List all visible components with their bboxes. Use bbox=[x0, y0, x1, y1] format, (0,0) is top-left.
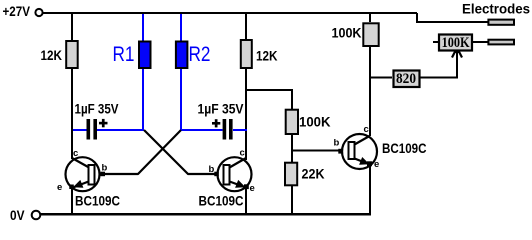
Q1 emitter junction dot bbox=[69, 185, 74, 190]
Q2 part label BC109C bbox=[199, 193, 244, 209]
svg-text:b: b bbox=[334, 138, 340, 149]
Q2 emitter arrow bbox=[235, 180, 245, 188]
resistor R2 bbox=[176, 42, 188, 69]
svg-text:b: b bbox=[209, 164, 215, 175]
Q2 collector stroke bbox=[230, 158, 247, 168]
Q1 pin label e bbox=[57, 182, 62, 193]
Q2 pin label c bbox=[240, 148, 245, 159]
svg-text:100K: 100K bbox=[332, 26, 362, 41]
polarity + of C2 bbox=[212, 119, 220, 127]
Q3 collector stroke bbox=[355, 136, 370, 145]
value label 12K left bbox=[41, 48, 63, 63]
svg-text:+27V: +27V bbox=[3, 4, 31, 19]
label Electrodes bbox=[462, 2, 530, 17]
Q1 emitter arrow bbox=[73, 180, 83, 188]
wire cross-couple node A to Q2 base bbox=[144, 130, 216, 174]
wire pot left stub bbox=[433, 41, 439, 43]
Q1 emitter stroke bbox=[72, 182, 89, 189]
Q2 pin label e bbox=[250, 183, 255, 194]
polarity + of C1 bbox=[99, 119, 108, 127]
wire node B to C2 (blue) bbox=[181, 129, 223, 131]
wire Q1 collector to C1 (blue) bbox=[73, 129, 87, 131]
Q2 pin label b bbox=[209, 164, 215, 175]
svg-text:Electrodes: Electrodes bbox=[462, 2, 530, 17]
svg-text:1µF 35V: 1µF 35V bbox=[198, 102, 244, 117]
Q2 base bar bbox=[224, 165, 230, 185]
wire 12K left to Q1 collector bbox=[71, 69, 73, 159]
value label 100K top right bbox=[332, 26, 362, 41]
potentiometer 100K bbox=[439, 35, 472, 51]
wire C2 to Q2 collector rail (blue) bbox=[233, 129, 247, 131]
transistor Q2 body bbox=[218, 157, 252, 191]
wire divider branch from Q2 collector rail bbox=[246, 90, 292, 110]
wire R1 to node A (blue) bbox=[142, 69, 144, 130]
label R1 bbox=[113, 43, 135, 66]
transistor Q3 body bbox=[342, 134, 377, 169]
svg-text:100K: 100K bbox=[299, 115, 331, 130]
wire 820 to pot wiper bbox=[420, 49, 457, 78]
wire Q3 emitter to 0V rail bbox=[369, 164, 371, 215]
svg-text:0V: 0V bbox=[10, 207, 25, 223]
Q3 pin label b bbox=[334, 138, 340, 149]
Q3 pin label e bbox=[374, 159, 379, 170]
wire electrode feed from rail bbox=[417, 13, 488, 22]
svg-text:e: e bbox=[250, 183, 255, 194]
svg-text:22K: 22K bbox=[302, 167, 325, 182]
wire 12K right to Q2 collector bbox=[245, 69, 247, 160]
terminal 0V bbox=[32, 211, 41, 220]
wire 22K to 0V rail bbox=[291, 186, 293, 215]
svg-text:1µF 35V: 1µF 35V bbox=[75, 102, 119, 117]
svg-text:820: 820 bbox=[396, 71, 416, 87]
resistor 22K bbox=[285, 163, 297, 186]
terminal +27V bbox=[35, 9, 42, 16]
value label C1 1uF 35V bbox=[75, 102, 119, 117]
resistor 12K left bbox=[66, 41, 78, 68]
svg-text:b: b bbox=[102, 163, 108, 174]
value label 100K pot bbox=[442, 35, 471, 51]
wire rail to R 12K right bbox=[245, 13, 247, 39]
Q1 base junction dot bbox=[101, 172, 106, 177]
resistor 100K divider bbox=[286, 110, 298, 134]
wire rail to 100K top right bbox=[369, 13, 371, 22]
wire pot to electrode 2 bbox=[473, 41, 488, 43]
Q1 pin label b bbox=[102, 163, 108, 174]
node +27V label bbox=[3, 4, 31, 19]
wire cross-couple node B to Q1 base bbox=[103, 130, 181, 174]
wire rail to R2 (blue) bbox=[180, 14, 182, 42]
svg-text:R2: R2 bbox=[189, 43, 211, 66]
svg-text:c: c bbox=[364, 124, 369, 135]
capacitor C1 1uF plates bbox=[87, 119, 98, 140]
value label 820 bbox=[396, 71, 416, 87]
value label 12K right bbox=[256, 49, 278, 64]
svg-text:BC109C: BC109C bbox=[382, 140, 427, 156]
resistor 12K right bbox=[241, 40, 252, 68]
Q3 part label BC109C bbox=[382, 140, 427, 156]
wire 100K to 22K bbox=[291, 135, 293, 162]
svg-text:c: c bbox=[73, 148, 78, 159]
svg-text:12K: 12K bbox=[256, 49, 278, 64]
value label 100K divider bbox=[299, 115, 331, 130]
value label 22K bbox=[302, 167, 325, 182]
wire C1 to node A (blue) bbox=[97, 129, 144, 131]
Q3 emitter stroke bbox=[355, 159, 371, 165]
Q3 base bar bbox=[349, 142, 355, 159]
Q1 part label BC109C bbox=[75, 193, 120, 209]
Q3 emitter arrow bbox=[359, 157, 369, 165]
svg-text:BC109C: BC109C bbox=[199, 193, 244, 209]
Q2 emitter stroke bbox=[230, 182, 247, 188]
Q3 emitter junction dot bbox=[367, 161, 372, 166]
wire top +27V rail bbox=[43, 12, 417, 14]
resistor 820 bbox=[394, 71, 420, 88]
pot wiper arrow bbox=[452, 47, 462, 58]
svg-text:R1: R1 bbox=[113, 43, 135, 66]
svg-text:c: c bbox=[240, 148, 245, 159]
wire Q1 emitter to 0V rail bbox=[71, 188, 73, 215]
node 0V label bbox=[10, 207, 25, 223]
svg-text:e: e bbox=[57, 182, 62, 193]
resistor 100K top right bbox=[363, 23, 378, 46]
wire bottom 0V rail bbox=[40, 213, 371, 216]
capacitor C2 1uF plates bbox=[223, 119, 233, 140]
svg-text:BC109C: BC109C bbox=[75, 193, 120, 209]
Q2 base junction dot bbox=[214, 172, 219, 177]
Q1 pin label c bbox=[73, 148, 78, 159]
wire rail to R1 (blue) bbox=[142, 14, 144, 42]
svg-text:100K: 100K bbox=[442, 35, 471, 51]
resistor R1 bbox=[139, 42, 151, 69]
transistor Q1 body bbox=[66, 157, 100, 191]
wire 100K to Q3 collector bbox=[369, 47, 371, 136]
wire rail to R 12K left bbox=[71, 13, 73, 40]
Q1 base bar bbox=[89, 165, 95, 185]
Q3 pin label c bbox=[364, 124, 369, 135]
label R2 bbox=[189, 43, 211, 66]
electrode 1 plate bbox=[488, 20, 514, 25]
svg-text:12K: 12K bbox=[41, 48, 63, 63]
wire R2 to node B (blue) bbox=[180, 69, 182, 130]
wire divider tap to Q3 base bbox=[292, 150, 340, 152]
value label C2 1uF 35V bbox=[198, 102, 244, 117]
wire Q2 emitter to 0V rail bbox=[245, 188, 247, 215]
wire branch to 820 bbox=[370, 77, 392, 79]
electrode 2 plate bbox=[488, 40, 514, 45]
Q2 emitter junction dot bbox=[244, 184, 249, 189]
svg-text:e: e bbox=[374, 159, 379, 170]
Q3 base junction dot bbox=[338, 149, 343, 154]
Q1 collector stroke bbox=[72, 158, 89, 168]
